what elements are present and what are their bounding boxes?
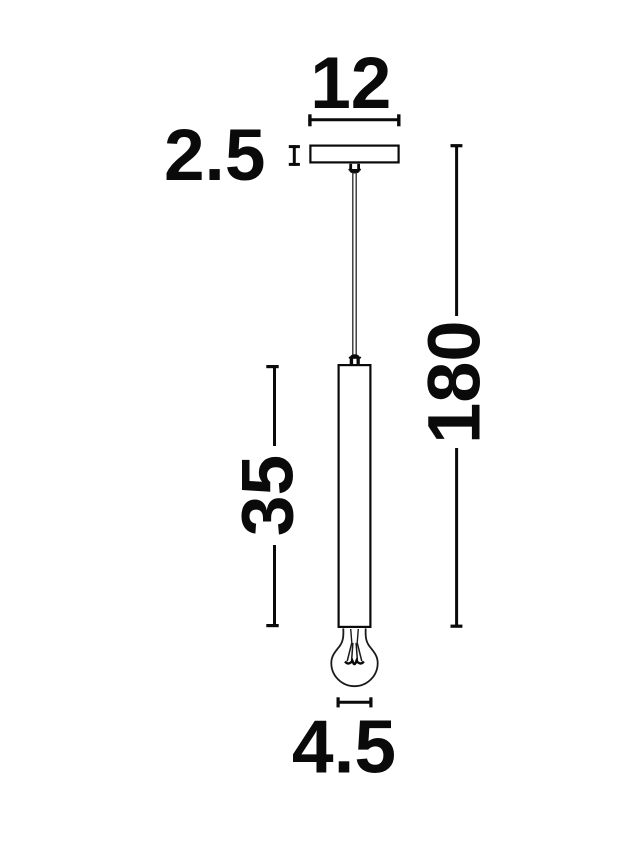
bulb stem lines [351, 629, 359, 643]
dimension line 180 (vertical, overall drop) [451, 146, 463, 627]
svg-text:12: 12 [310, 43, 391, 124]
canopy (ceiling plate) [310, 146, 398, 163]
dimension label 2.5 [164, 115, 265, 196]
svg-text:2.5: 2.5 [164, 115, 265, 196]
cord grip under canopy [348, 164, 361, 174]
dimension label 12 [310, 43, 391, 124]
dimension line 4.5 (horizontal, tube diameter) [337, 697, 373, 707]
bulb glass outline [331, 628, 377, 686]
filament support wires [347, 643, 362, 661]
dimension line 35 (vertical, tube height) [266, 366, 278, 626]
dimension label 180 (rotated) [413, 320, 496, 443]
svg-text:35: 35 [228, 455, 309, 536]
filament feet [345, 661, 364, 665]
tube (cylindrical lamp body) [339, 365, 371, 627]
svg-text:4.5: 4.5 [292, 705, 396, 789]
ferrule at tube top [349, 354, 361, 364]
dimension marker 2.5 (I-beam at canopy height) [289, 145, 300, 166]
dimension label 4.5 [292, 705, 396, 789]
dimension line 12 (horizontal, above canopy) [308, 114, 400, 126]
suspension cable (double line) [353, 173, 356, 356]
svg-text:180: 180 [413, 320, 496, 443]
dimension label 35 (rotated) [228, 455, 309, 536]
